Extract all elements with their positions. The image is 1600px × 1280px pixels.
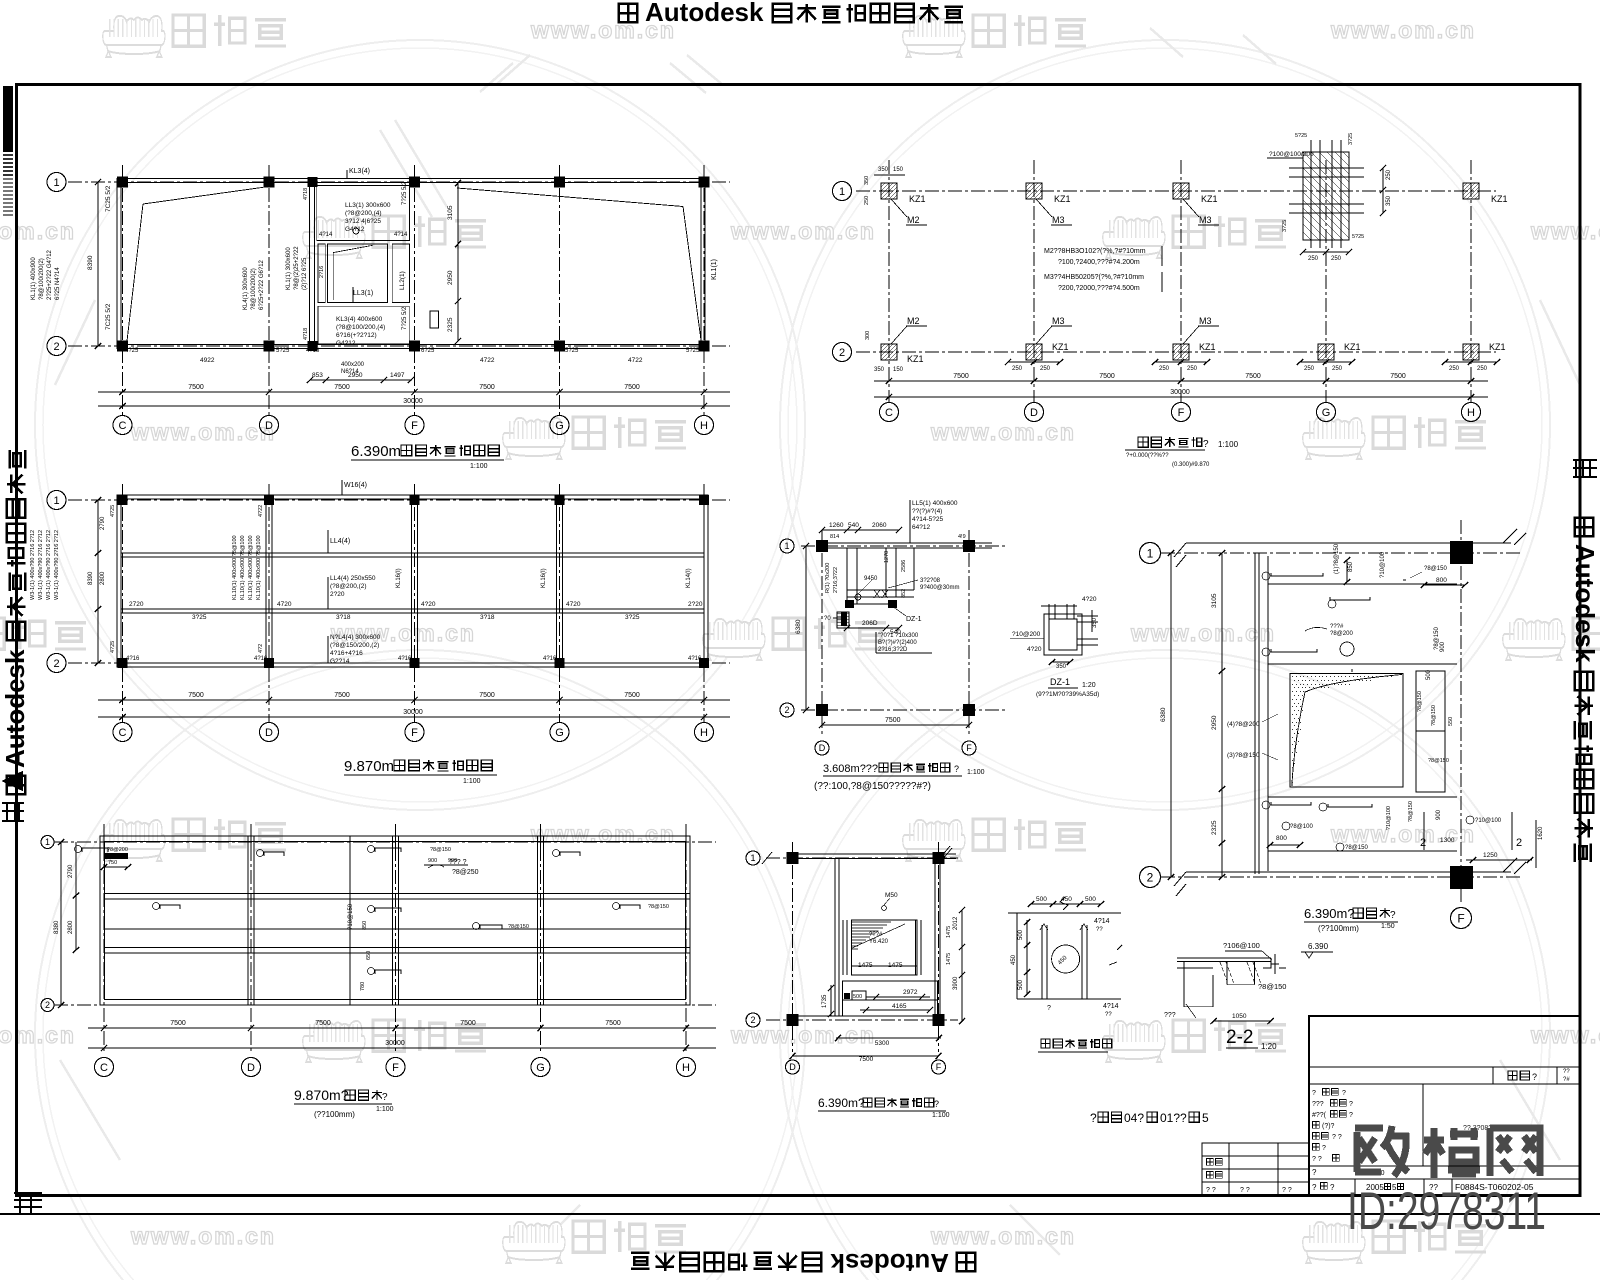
svg-text:250: 250 xyxy=(1308,256,1319,262)
svg-text:6.390m?: 6.390m? xyxy=(1304,906,1355,921)
svg-text:6380: 6380 xyxy=(795,619,802,634)
svg-text:W3-1(1) 400x?90 2?16 2?12: W3-1(1) 400x?90 2?16 2?12 xyxy=(30,530,36,600)
svg-text:F: F xyxy=(392,1062,399,1074)
plan5 grid axis row2 xyxy=(54,1004,716,1006)
svg-text:3?25: 3?25 xyxy=(625,614,640,621)
svg-text:540: 540 xyxy=(848,522,859,529)
svg-text:1:20: 1:20 xyxy=(1082,682,1096,689)
svg-text:www.om.cn: www.om.cn xyxy=(130,419,276,445)
svg-text:4?20: 4?20 xyxy=(1082,596,1097,603)
svg-text:900: 900 xyxy=(428,858,437,864)
plan2 grid axis column D xyxy=(1033,160,1035,402)
plan2 dimension line 30000 xyxy=(874,396,1488,398)
plan5 grid circle column F xyxy=(386,1058,405,1077)
svg-text:4?16: 4?16 xyxy=(688,656,702,662)
plan7 right dim stack xyxy=(961,910,963,1021)
svg-text:?8@150: ?8@150 xyxy=(1431,705,1437,726)
svg-text:???#: ???# xyxy=(869,932,883,938)
svg-text:M3: M3 xyxy=(1052,215,1065,225)
plan1 grid axis column F xyxy=(414,165,416,415)
svg-text:6380: 6380 xyxy=(1160,707,1167,722)
plan7 corner columns xyxy=(787,852,799,864)
bottom caption: by Autodesk educational product (rotated 180) xyxy=(631,1248,975,1278)
plan4 embed plate hatch xyxy=(837,612,849,628)
svg-text:?10@100: ?10@100 xyxy=(1386,806,1392,830)
plan3 lower labels N?L4(4) 300x600 xyxy=(327,636,329,663)
svg-text:www.om.cn: www.om.cn xyxy=(1530,1022,1600,1048)
svg-text:N6?14: N6?14 xyxy=(341,369,359,375)
svg-text:4720: 4720 xyxy=(566,601,581,608)
paper fold mark bottom-left xyxy=(14,1193,42,1214)
title block left sub-table xyxy=(1202,1143,1309,1195)
svg-text:1475: 1475 xyxy=(858,962,873,969)
svg-text:www.om.cn: www.om.cn xyxy=(1330,17,1476,43)
plan5 mid distribution line xyxy=(104,928,690,930)
svg-text:C: C xyxy=(100,1062,108,1074)
svg-text:3?18: 3?18 xyxy=(480,614,495,621)
svg-text:???: ??? xyxy=(1164,1012,1176,1019)
plan5 left dims xyxy=(60,842,62,1005)
svg-text:250: 250 xyxy=(1331,256,1342,262)
svg-text:F: F xyxy=(1457,911,1464,925)
svg-text:450: 450 xyxy=(1061,896,1072,903)
plan2 grid circle row2 xyxy=(833,343,852,362)
svg-text:?: ? xyxy=(1312,1183,1317,1192)
plan7 shaft hatch xyxy=(852,922,891,949)
svg-text:30000: 30000 xyxy=(385,1040,405,1047)
giant watermark circle top-left xyxy=(35,40,805,810)
plan6 opening wedge boundary xyxy=(1292,675,1402,787)
plan5 mid vertical bar line xyxy=(349,836,351,1005)
svg-text:852: 852 xyxy=(901,589,907,598)
plan1 core bottom room xyxy=(318,306,409,344)
section2-2 slab lines xyxy=(1177,957,1271,959)
svg-text:9.870m?: 9.870m? xyxy=(294,1087,349,1103)
svg-text:250: 250 xyxy=(1332,366,1343,372)
watermark tile grid xyxy=(103,15,286,57)
svg-text:www.om.cn: www.om.cn xyxy=(0,1022,76,1048)
svg-text:?: ? xyxy=(1090,1111,1097,1125)
plan1 grid circle column G xyxy=(550,416,569,435)
plan4 interior shaft walls xyxy=(846,548,848,604)
svg-text:2: 2 xyxy=(53,658,59,670)
plan1 dimension line 30000 xyxy=(98,405,730,407)
svg-text:450: 450 xyxy=(1011,954,1017,965)
svg-text:7500: 7500 xyxy=(605,1020,621,1027)
svg-text:www.om.cn: www.om.cn xyxy=(1130,620,1276,646)
svg-text:C: C xyxy=(885,407,893,419)
plan3 dimension line 7500x4 xyxy=(98,699,730,701)
outer bottom trim line xyxy=(0,1213,1600,1215)
svg-text:1:100: 1:100 xyxy=(470,463,488,470)
svg-text:500: 500 xyxy=(1085,896,1096,903)
svg-text:(3)?8@150: (3)?8@150 xyxy=(1227,752,1260,759)
svg-text:1: 1 xyxy=(1147,546,1154,560)
svg-text:4?14: 4?14 xyxy=(394,232,408,238)
svg-text:(9??1M?0?39%A35d): (9??1M?0?39%A35d) xyxy=(1036,691,1099,698)
plan3 grid circle column C xyxy=(113,723,132,742)
svg-text:4?25: 4?25 xyxy=(110,505,116,517)
svg-text:?: ? xyxy=(1312,1168,1317,1177)
svg-text:7500: 7500 xyxy=(624,692,640,699)
registration grid left edge xyxy=(2,803,24,821)
hole detail circle opening xyxy=(1052,945,1080,973)
svg-text:R(1) ?0x200: R(1) ?0x200 xyxy=(825,563,831,593)
svg-text:?: ? xyxy=(1349,1101,1353,1108)
svg-text:350: 350 xyxy=(1386,195,1392,206)
svg-text:D: D xyxy=(1030,407,1038,419)
plan2 grid axis column F xyxy=(1180,160,1182,402)
plan6 left wall double line xyxy=(1254,553,1256,874)
plan5 top beam ticks xyxy=(103,830,105,848)
svg-text:7500: 7500 xyxy=(953,373,969,380)
svg-text:4?22: 4?22 xyxy=(258,505,264,517)
plan1 core inner room with slope xyxy=(328,244,388,303)
plan5 grid circle column H xyxy=(677,1058,696,1077)
svg-text:250: 250 xyxy=(1386,169,1392,180)
svg-text:KL14(I): KL14(I) xyxy=(686,568,692,588)
svg-text:3105: 3105 xyxy=(1211,593,1218,608)
svg-text:M3: M3 xyxy=(1199,316,1212,326)
svg-text:550: 550 xyxy=(1448,717,1454,726)
svg-text:W3-1(1) 400x?90 2?16 2?12: W3-1(1) 400x?90 2?16 2?12 xyxy=(46,530,52,600)
plan3 dimension line 30000 xyxy=(98,716,730,718)
plan2 grid circle row1 xyxy=(833,182,852,201)
plan6 grid axis row2 xyxy=(1161,876,1520,878)
plan7 grid axis row1 xyxy=(766,857,958,859)
svg-text:?8@150: ?8@150 xyxy=(1428,758,1449,764)
plan4 grid circle row2 xyxy=(780,703,794,717)
svg-text:"?0?1 ?10x300: "?0?1 ?10x300 xyxy=(878,633,919,639)
svg-text:LL2(1): LL2(1) xyxy=(399,271,406,290)
plan5 grid circle row2 xyxy=(41,999,54,1012)
svg-text:1050: 1050 xyxy=(1232,1013,1247,1020)
right caption: by Autodesk educational product (rotated 90) xyxy=(1570,518,1600,862)
svg-text:9.870m: 9.870m xyxy=(344,758,394,775)
svg-text:7500: 7500 xyxy=(1099,373,1115,380)
svg-text:(0.300)#9.870: (0.300)#9.870 xyxy=(1172,462,1210,468)
svg-text:?8@100/200(2): ?8@100/200(2) xyxy=(39,258,45,300)
svg-text:6?25: 6?25 xyxy=(421,348,435,354)
svg-text:1270: 1270 xyxy=(884,551,890,563)
svg-text:LL3(1): LL3(1) xyxy=(353,290,373,297)
plan3 grid circle column G xyxy=(550,723,569,742)
svg-text:M2??8HB3O102?(?%,?#?10mm: M2??8HB3O102?(?%,?#?10mm xyxy=(1044,248,1146,255)
svg-text:?8@100/200(2): ?8@100/200(2) xyxy=(251,268,257,310)
svg-text:150: 150 xyxy=(893,167,904,173)
svg-text:30000: 30000 xyxy=(403,709,423,716)
svg-text:?100,?2400,???#?4.200m: ?100,?2400,???#?4.200m xyxy=(1058,259,1140,266)
plan7 stair shaft xyxy=(852,920,918,975)
svg-text:D: D xyxy=(265,727,273,739)
plan1 core right cell xyxy=(392,244,409,303)
svg-text:4722: 4722 xyxy=(628,357,643,364)
svg-text:500: 500 xyxy=(1018,929,1024,940)
svg-text:7500: 7500 xyxy=(1390,373,1406,380)
svg-text:4?20: 4?20 xyxy=(1027,646,1042,653)
svg-text:350: 350 xyxy=(1056,664,1067,670)
svg-text:(??:100,?8@150?????#?): (??:100,?8@150?????#?) xyxy=(814,781,931,792)
hole detail slab edges xyxy=(1008,912,1121,914)
hole detail bar pairs xyxy=(1041,925,1043,999)
plan1 interior sloped roof beam left bay xyxy=(127,204,143,341)
plan6 rebar symbols and leaders xyxy=(1271,573,1323,576)
plan2 title xyxy=(1138,437,1202,447)
svg-text:??: ?? xyxy=(1563,1069,1570,1075)
plan1 grid circle column H xyxy=(695,416,714,435)
svg-text:6?16(+?2?12): 6?16(+?2?12) xyxy=(336,332,377,339)
svg-text:250: 250 xyxy=(1187,366,1198,372)
plan3 grid circle column F xyxy=(405,723,424,742)
svg-text:M50: M50 xyxy=(885,892,898,899)
plan1 dimension line 7500x4 xyxy=(98,391,730,393)
svg-text:814: 814 xyxy=(830,534,839,540)
svg-text:LL5(1) 400x600: LL5(1) 400x600 xyxy=(912,500,958,507)
svg-text:4?18: 4?18 xyxy=(306,348,320,354)
svg-text:3?12 4|6?25: 3?12 4|6?25 xyxy=(345,218,381,225)
svg-text:7500: 7500 xyxy=(885,717,901,724)
svg-text:7500: 7500 xyxy=(334,692,350,699)
svg-text:8390: 8390 xyxy=(87,255,94,270)
svg-text:Autodesk: Autodesk xyxy=(645,0,764,27)
svg-text:4922: 4922 xyxy=(200,357,215,364)
svg-text:2012: 2012 xyxy=(953,916,959,930)
svg-text:1250: 1250 xyxy=(1483,852,1498,859)
plan3 grid axis column H xyxy=(703,484,705,722)
svg-text:4?16: 4?16 xyxy=(543,656,557,662)
svg-text:?8@200: ?8@200 xyxy=(1330,631,1353,637)
svg-text:1:100: 1:100 xyxy=(376,1106,394,1113)
plan3 beam label LL4(4) xyxy=(327,530,329,553)
svg-text:850: 850 xyxy=(362,921,368,930)
svg-text:Autodesk: Autodesk xyxy=(830,1248,949,1278)
svg-text:4?16: 4?16 xyxy=(254,656,268,662)
svg-text:4?18: 4?18 xyxy=(303,188,309,200)
svg-text:G: G xyxy=(555,420,564,432)
plan3 interior horizontal beams xyxy=(121,552,704,554)
plan1 core wall blobs xyxy=(308,177,318,187)
plan4 grid axis row1 xyxy=(801,545,1007,547)
svg-text:1: 1 xyxy=(750,853,755,863)
svg-text:7500: 7500 xyxy=(188,692,204,699)
svg-text:3?2?08: 3?2?08 xyxy=(920,578,941,584)
svg-text:G4?12: G4?12 xyxy=(336,340,356,347)
svg-text:4?25: 4?25 xyxy=(125,348,139,354)
svg-text:3?25: 3?25 xyxy=(1348,133,1354,145)
section2-2 dim 1050 xyxy=(1214,1020,1271,1022)
plan5 grid circle column D xyxy=(242,1058,261,1077)
svg-text:64?12: 64?12 xyxy=(912,524,930,531)
svg-text:#??(: #??( xyxy=(1312,1112,1327,1119)
plan6 grid axis row1 xyxy=(1161,552,1520,554)
svg-text:2950: 2950 xyxy=(1211,715,1218,730)
plan3 column beam verticals xyxy=(265,499,267,663)
svg-text:750: 750 xyxy=(108,860,117,866)
plan1 core upper room xyxy=(317,186,410,241)
plan1 grid axis column D xyxy=(268,165,270,415)
svg-text:4165: 4165 xyxy=(892,1003,907,1010)
svg-text:KL10(1) 400x900 ?8@100: KL10(1) 400x900 ?8@100 xyxy=(240,535,246,600)
svg-text:2790: 2790 xyxy=(100,516,106,530)
detail DZ-1 stirrup extensions right xyxy=(1077,615,1098,617)
svg-text:LL4(4): LL4(4) xyxy=(330,538,350,545)
plan4 top dim line 1260 540 2060 xyxy=(822,529,899,531)
plan7 bottom beam xyxy=(789,1015,942,1017)
svg-text:F: F xyxy=(936,1062,942,1072)
svg-text:www.om.cn: www.om.cn xyxy=(730,218,876,244)
plan5 grid circle row1 xyxy=(41,836,54,849)
svg-text:6?25 N4?14: 6?25 N4?14 xyxy=(55,267,61,300)
svg-text:250: 250 xyxy=(864,196,870,205)
svg-text:??? ?: ??? ? xyxy=(449,859,467,866)
svg-text:4?16: 4?16 xyxy=(126,656,140,662)
svg-text:?8@250: ?8@250 xyxy=(452,869,479,876)
detail DZ-1 outer square xyxy=(1044,614,1082,655)
svg-text:(?8@100/200,(4): (?8@100/200,(4) xyxy=(336,324,385,331)
svg-text:6.390: 6.390 xyxy=(1308,942,1329,951)
svg-text:04?: 04? xyxy=(1124,1111,1144,1125)
plan2 grid axis row 1 xyxy=(856,190,1496,192)
svg-text:KL16(I): KL16(I) xyxy=(541,568,547,588)
giant watermark circle top-right xyxy=(780,40,1550,810)
plan4 grid axis columns D F xyxy=(821,530,823,734)
svg-text:?: ? xyxy=(1203,439,1209,450)
svg-text:1:100: 1:100 xyxy=(932,1112,950,1119)
plan5 mid bars xyxy=(375,908,401,912)
svg-text:F: F xyxy=(411,727,418,739)
svg-text:KL10(1) 400x900 ?8@100: KL10(1) 400x900 ?8@100 xyxy=(248,535,254,600)
svg-text:1:100: 1:100 xyxy=(967,769,985,776)
svg-text:KZ1: KZ1 xyxy=(1489,342,1506,352)
svg-text:1300: 1300 xyxy=(1440,837,1455,844)
svg-text:1:100: 1:100 xyxy=(463,778,481,785)
svg-text:2: 2 xyxy=(750,1015,755,1025)
svg-text:KZ1: KZ1 xyxy=(1491,194,1508,204)
plan2 column symbols KZ1 hatched xyxy=(881,183,897,199)
svg-text:1:20: 1:20 xyxy=(1261,1042,1277,1051)
svg-text:5: 5 xyxy=(1202,1111,1209,1125)
svg-text:C: C xyxy=(119,727,127,739)
svg-text:G2?14: G2?14 xyxy=(330,658,350,665)
svg-text:7500: 7500 xyxy=(1245,373,1261,380)
svg-text:W3-1(1) 400x?90 2?16 2?12: W3-1(1) 400x?90 2?16 2?12 xyxy=(38,530,44,600)
svg-text:G4?12: G4?12 xyxy=(345,226,365,233)
svg-text:2325: 2325 xyxy=(447,317,454,332)
svg-text:4720: 4720 xyxy=(277,601,292,608)
svg-text:650: 650 xyxy=(366,951,372,960)
plan1 grid axis column C xyxy=(122,165,124,415)
svg-text:?: ? xyxy=(1342,1090,1346,1097)
plan1 grid circle row1 xyxy=(47,173,66,192)
svg-text:C: C xyxy=(119,420,127,432)
svg-text:3900: 3900 xyxy=(953,976,959,990)
svg-text:?0: ?0 xyxy=(824,616,831,622)
svg-text:?: ? xyxy=(1330,1183,1335,1192)
svg-text:www.om.cn: www.om.cn xyxy=(1530,218,1600,244)
plan6 room outline xyxy=(1267,556,1269,871)
plan6 grid circle row2 xyxy=(1140,867,1161,888)
svg-text:6.390m: 6.390m xyxy=(351,443,401,460)
plan5 grid circle column C xyxy=(95,1058,114,1077)
plan1 under-core dims 853 2950 1497 xyxy=(310,379,412,381)
plan3 grid axis row1 xyxy=(68,499,730,501)
svg-text:7500: 7500 xyxy=(170,1020,186,1027)
svg-text:?: ? xyxy=(1532,1072,1537,1082)
svg-text:7C25 5/2: 7C25 5/2 xyxy=(105,303,112,330)
svg-text:2: 2 xyxy=(839,347,845,359)
title block band lines xyxy=(1309,1066,1580,1068)
plan1 right bay dim 3105/2950/2325 xyxy=(457,183,459,341)
svg-text:G: G xyxy=(1322,407,1331,419)
svg-text:www.om.cn: www.om.cn xyxy=(930,419,1076,445)
plan2 grid axis row 2 xyxy=(856,351,1496,353)
svg-text:5300: 5300 xyxy=(875,1040,890,1047)
svg-text:?: ? xyxy=(1312,1090,1316,1097)
plan7 left wall xyxy=(834,858,836,1016)
svg-text:7?25 5/2: 7?25 5/2 xyxy=(402,306,408,330)
svg-text:2325: 2325 xyxy=(1211,820,1218,835)
giant watermark circle bottom-right xyxy=(780,650,1550,1280)
plan2 G1 column blowup detail xyxy=(1303,152,1349,240)
plan3 mid labels LL4(4) 250x550 xyxy=(327,577,329,609)
svg-text:7500: 7500 xyxy=(315,1020,331,1027)
dark watermark logo oumowang xyxy=(1355,1126,1408,1176)
svg-text:1: 1 xyxy=(53,177,59,189)
svg-text:KZ1: KZ1 xyxy=(907,354,924,364)
svg-text:3?25: 3?25 xyxy=(192,614,207,621)
svg-text:H: H xyxy=(682,1062,690,1074)
plan6 top slab edge with break arrows xyxy=(1186,542,1511,544)
svg-text:5?25: 5?25 xyxy=(276,348,290,354)
svg-text:??: ?? xyxy=(1105,1012,1112,1018)
section2-2 mid bars region xyxy=(1226,962,1228,985)
svg-text:2-2: 2-2 xyxy=(1226,1027,1253,1048)
svg-text:?100@100/200: ?100@100/200 xyxy=(1269,151,1314,158)
svg-text:5?25: 5?25 xyxy=(565,348,579,354)
plan5 grid axis column F xyxy=(395,824,397,1052)
left edge disclaimer text strip xyxy=(3,86,13,152)
svg-text:www.om.cn: www.om.cn xyxy=(930,1223,1076,1249)
svg-text:6.390m?: 6.390m? xyxy=(818,1096,865,1110)
svg-text:1475: 1475 xyxy=(946,926,952,938)
svg-text:?200,?2000,???#?4.500m: ?200,?2000,???#?4.500m xyxy=(1058,285,1140,292)
svg-text:350: 350 xyxy=(874,367,885,373)
svg-text:3?18: 3?18 xyxy=(336,614,351,621)
svg-text:350: 350 xyxy=(864,176,870,185)
svg-text:KL10(1) 400x900 ?8@100: KL10(1) 400x900 ?8@100 xyxy=(256,535,262,600)
plan3 top beam label W16(4) xyxy=(341,480,343,495)
plan2 grid axis column H xyxy=(1470,160,1472,402)
plan4 small embed label left xyxy=(841,612,847,626)
svg-text:150: 150 xyxy=(893,367,904,373)
svg-text:1: 1 xyxy=(45,837,50,847)
plan5 grid axis row1 xyxy=(54,841,716,843)
plan6 opening hatched square xyxy=(1290,674,1403,788)
svg-text:206D: 206D xyxy=(862,620,878,627)
plan3 grid axis column F xyxy=(414,484,416,722)
plan1 core left wall xyxy=(309,183,311,344)
svg-text:2800: 2800 xyxy=(68,920,74,934)
svg-text:KZ1: KZ1 xyxy=(1201,194,1218,204)
svg-text:7500: 7500 xyxy=(334,384,350,391)
svg-text:?8@150: ?8@150 xyxy=(648,904,669,910)
svg-text:KL3(4): KL3(4) xyxy=(349,168,370,175)
svg-text:300: 300 xyxy=(865,331,871,340)
section2-2 left beam xyxy=(1184,962,1213,1007)
plan2 grid circle column F xyxy=(1172,403,1191,422)
svg-text:2: 2 xyxy=(1420,837,1426,849)
svg-text:M3: M3 xyxy=(1052,316,1065,326)
